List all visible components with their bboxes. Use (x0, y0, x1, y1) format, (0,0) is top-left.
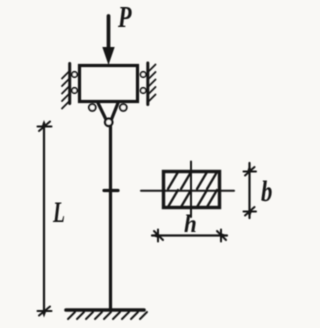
pin triangle (98, 103, 118, 121)
dimension h left arrow (152, 230, 164, 242)
svg-text:h: h (184, 211, 197, 238)
dimension b bottom arrow (244, 207, 257, 218)
section cut mark (104, 189, 118, 192)
column (109, 127, 112, 311)
vertical centerline (190, 162, 192, 218)
dimension line L (43, 123, 45, 313)
label P (117, 0, 132, 34)
horizontal centerline (141, 190, 234, 192)
label L (52, 197, 65, 229)
dimension L bottom arrow (38, 307, 52, 318)
svg-text:b: b (261, 174, 272, 208)
label h (184, 211, 197, 238)
cross-section rectangle (164, 172, 220, 208)
right rollers (141, 72, 146, 93)
dimension h right arrow (217, 230, 228, 242)
section hatching (168, 172, 217, 207)
ground line (66, 308, 144, 312)
svg-text:L: L (52, 197, 65, 229)
left guide wall (68, 64, 71, 104)
svg-text:P: P (117, 0, 132, 34)
dimension line b (248, 163, 250, 218)
left rollers (72, 72, 77, 93)
pin ball joint (105, 119, 112, 126)
force arrow P (103, 16, 114, 64)
guided block (80, 66, 138, 102)
dimension L top arrow (38, 120, 52, 131)
right guide hatching (148, 65, 156, 103)
pin linkage balls (89, 104, 127, 111)
label b (261, 174, 272, 208)
dimension b top arrow (244, 165, 257, 176)
dimension line h (152, 234, 227, 236)
ground hatching (68, 312, 147, 319)
left guide hatching (62, 71, 70, 109)
right guide wall (146, 63, 149, 105)
